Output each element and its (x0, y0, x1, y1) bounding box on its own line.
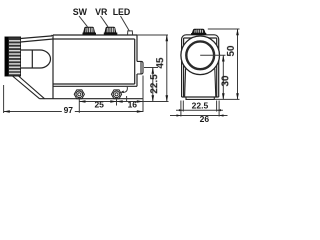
svg-text:50: 50 (226, 45, 237, 57)
dim 22.5 (front bottom) (176, 100, 223, 111)
svg-text:16: 16 (128, 100, 138, 110)
LED bump (128, 31, 133, 35)
lens barrel bullet (21, 50, 51, 68)
extension line body top right (137, 34, 168, 36)
svg-text:26: 26 (200, 114, 210, 124)
top wedge connecting ring to body (21, 35, 54, 42)
extension knob top (208, 28, 240, 30)
knurled lens ring (5, 37, 21, 76)
svg-text:SW: SW (73, 7, 88, 17)
side view body (53, 35, 137, 99)
svg-text:97: 97 (64, 105, 74, 115)
svg-text:22.5: 22.5 (192, 100, 209, 110)
dim 25 (79, 99, 116, 113)
dim 22.5 (middle) (149, 68, 160, 102)
SW knob (83, 27, 97, 35)
dim 26 (front bottom) (170, 101, 228, 124)
label SW (73, 7, 88, 27)
extension line step center (144, 67, 158, 69)
dim 30 (front) (220, 55, 231, 99)
dim 45 (middle) (155, 35, 167, 102)
svg-text:22.5: 22.5 (149, 74, 160, 94)
front knob (191, 29, 206, 35)
connector step on body right face (137, 61, 143, 74)
dim 16 (117, 76, 144, 113)
hook leader at screw 2 (120, 87, 127, 102)
svg-text:VR: VR (95, 7, 108, 17)
front view pedestal (186, 97, 214, 99)
svg-text:LED: LED (113, 7, 131, 17)
front lens inner bezel ring (186, 41, 214, 69)
front view skirt (185, 69, 216, 98)
diagonal brace (13, 76, 45, 99)
dim 97 (4, 85, 143, 115)
VR knob (104, 27, 118, 35)
dim 50 (front) (226, 29, 238, 99)
svg-text:45: 45 (155, 57, 166, 69)
extension front bottom (214, 98, 239, 100)
svg-text:25: 25 (94, 100, 104, 110)
lens center line (200, 54, 225, 56)
svg-text:30: 30 (220, 75, 231, 87)
bracket base plate (40, 98, 144, 100)
screw 1 (74, 90, 84, 99)
front lens outer circle (181, 36, 220, 75)
front view head (182, 35, 219, 97)
screw 2 (111, 90, 121, 99)
extension of dimension line to vertical dims (143, 101, 169, 103)
label LED (113, 7, 131, 31)
label VR (95, 7, 108, 27)
